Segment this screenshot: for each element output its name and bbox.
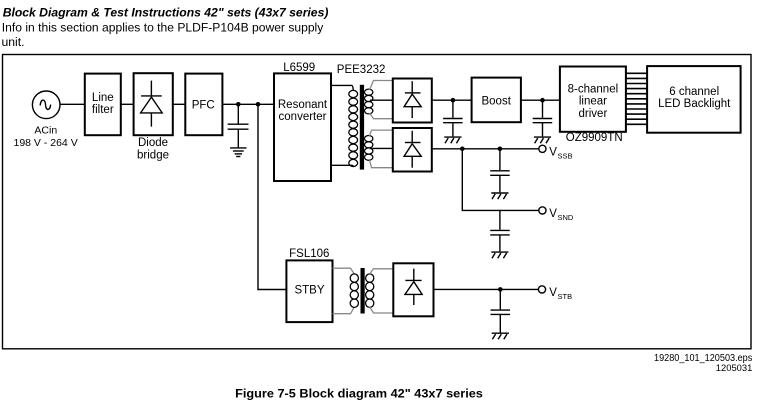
terminal VSND — [539, 207, 546, 214]
svg-text:PEE3232: PEE3232 — [337, 64, 386, 76]
wire secondary bottom lead B (gray) — [370, 160, 393, 168]
block rectifier top — [393, 79, 432, 123]
svg-text:linear: linear — [579, 96, 607, 108]
node junction dot — [540, 98, 545, 103]
node junction dot VSND feed — [460, 147, 465, 152]
block Diode bridge — [134, 73, 173, 135]
transformer T1 primary winding — [349, 90, 358, 166]
svg-text:filter: filter — [92, 104, 114, 116]
svg-text:6 channel: 6 channel — [669, 86, 719, 98]
svg-text:bridge: bridge — [137, 149, 169, 161]
diode symbol top rectifier — [404, 81, 421, 118]
node junction dot C6 — [498, 287, 503, 292]
svg-text:converter: converter — [279, 111, 327, 123]
capacitor C2 — [443, 100, 463, 136]
node junction dot C4 — [498, 147, 503, 152]
block Line filter — [85, 74, 121, 136]
wire VSSB rail — [432, 148, 539, 150]
svg-text:STB: STB — [558, 292, 573, 301]
wire STBY feed vertical — [258, 104, 286, 289]
ground earth (4-bar) — [230, 148, 246, 157]
capacitor C5 — [490, 210, 510, 251]
wire secondary top lead A (gray) — [370, 81, 393, 91]
svg-text:FSL106: FSL106 — [289, 248, 329, 260]
block 6 channel LED Backlight — [647, 66, 741, 133]
svg-text:1205031: 1205031 — [716, 363, 753, 374]
ground chassis C6 — [492, 333, 509, 339]
transformer T1 primary lead top — [331, 85, 353, 90]
svg-text:Diode: Diode — [138, 137, 168, 149]
svg-text:OZ9909TN: OZ9909TN — [566, 132, 623, 144]
svg-text:LED Backlight: LED Backlight — [658, 98, 731, 110]
svg-text:Line: Line — [92, 92, 114, 104]
transformer T2 secondary lead bottom (gray) — [370, 307, 394, 313]
wire Diode bridge to PFC — [173, 103, 186, 105]
svg-text:V: V — [549, 287, 557, 299]
svg-text:SSB: SSB — [558, 151, 573, 160]
wire VSND rail — [462, 149, 539, 211]
block rectifier bottom — [393, 128, 432, 172]
block rectifier STBY — [393, 263, 433, 316]
svg-text:driver: driver — [579, 108, 608, 120]
svg-text:V: V — [549, 208, 557, 220]
diode symbol D1 — [141, 81, 163, 127]
node junction dot STBY feed — [256, 102, 261, 107]
transformer T1 secondary winding bottom — [365, 136, 373, 161]
svg-text:PFC: PFC — [192, 99, 215, 111]
wire PFC to Resonant converter — [222, 103, 274, 105]
svg-text:Boost: Boost — [481, 95, 511, 107]
block STBY FSL106 — [286, 260, 332, 322]
transformer T2 primary winding — [350, 274, 358, 308]
svg-text:Resonant: Resonant — [278, 99, 328, 111]
svg-text:Info in this section applies t: Info in this section applies to the PLDF… — [2, 20, 324, 34]
wire secondary top lead B (gray) — [370, 113, 393, 119]
terminal VSTB — [538, 286, 545, 293]
svg-text:STBY: STBY — [294, 285, 324, 297]
transformer T2 primary lead bottom (gray) — [333, 307, 355, 314]
wire VSTB rail — [434, 288, 539, 290]
wire AC to Line filter — [60, 103, 85, 105]
capacitor C3 — [533, 100, 553, 136]
ground chassis C5 — [491, 252, 508, 258]
diode symbol STBY rectifier — [405, 269, 422, 305]
ground chassis C2 — [444, 137, 461, 143]
capacitor C6 — [491, 289, 511, 332]
wire secondary top tap (black) — [370, 99, 393, 101]
capacitor C4 — [490, 149, 510, 193]
wire Line filter to Diode bridge — [121, 103, 134, 105]
svg-text:ACin: ACin — [34, 125, 57, 137]
svg-text:Block Diagram & Test Instructi: Block Diagram & Test Instructions 42" se… — [3, 6, 329, 20]
wire secondary bottom tap (black) — [370, 147, 393, 149]
wire secondary bottom lead A (gray) — [370, 130, 393, 136]
diode symbol bottom rectifier — [404, 131, 421, 168]
bus comb driver to backlight — [626, 73, 647, 124]
svg-text:Figure 7-5 Block diagram 42" 4: Figure 7-5 Block diagram 42" 43x7 series — [235, 388, 483, 400]
ground chassis C4 — [491, 193, 508, 199]
AC source — [32, 91, 60, 119]
ground chassis C3 — [534, 137, 551, 143]
transformer T2 primary lead top (gray) — [333, 268, 355, 274]
wire rectifier top to Boost — [432, 99, 472, 101]
svg-text:L6599: L6599 — [283, 62, 315, 74]
node junction dot — [451, 98, 456, 103]
node junction dot C-bulk — [236, 102, 241, 107]
block Resonant converter U1 L6599 — [274, 73, 331, 181]
terminal VSSB — [539, 145, 546, 152]
transformer T1 primary lead bottom — [331, 165, 353, 166]
transformer T1 core — [360, 85, 364, 170]
transformer T1 secondary winding top — [365, 89, 373, 114]
capacitor C1 (bulk) — [228, 104, 249, 147]
block Boost — [472, 78, 521, 123]
diagram border frame — [3, 55, 752, 349]
block PFC — [185, 74, 222, 136]
transformer T2 secondary winding — [366, 274, 374, 308]
svg-text:8-channel: 8-channel — [568, 83, 619, 95]
svg-text:198 V - 264 V: 198 V - 264 V — [13, 137, 77, 149]
transformer T2 core — [361, 268, 365, 314]
transformer T2 secondary lead top (gray) — [370, 269, 394, 274]
svg-text:SND: SND — [558, 213, 574, 222]
svg-text:unit.: unit. — [2, 35, 25, 49]
svg-text:V: V — [549, 146, 557, 158]
wire Boost to driver — [521, 99, 560, 101]
block 8-channel linear driver — [560, 67, 626, 132]
